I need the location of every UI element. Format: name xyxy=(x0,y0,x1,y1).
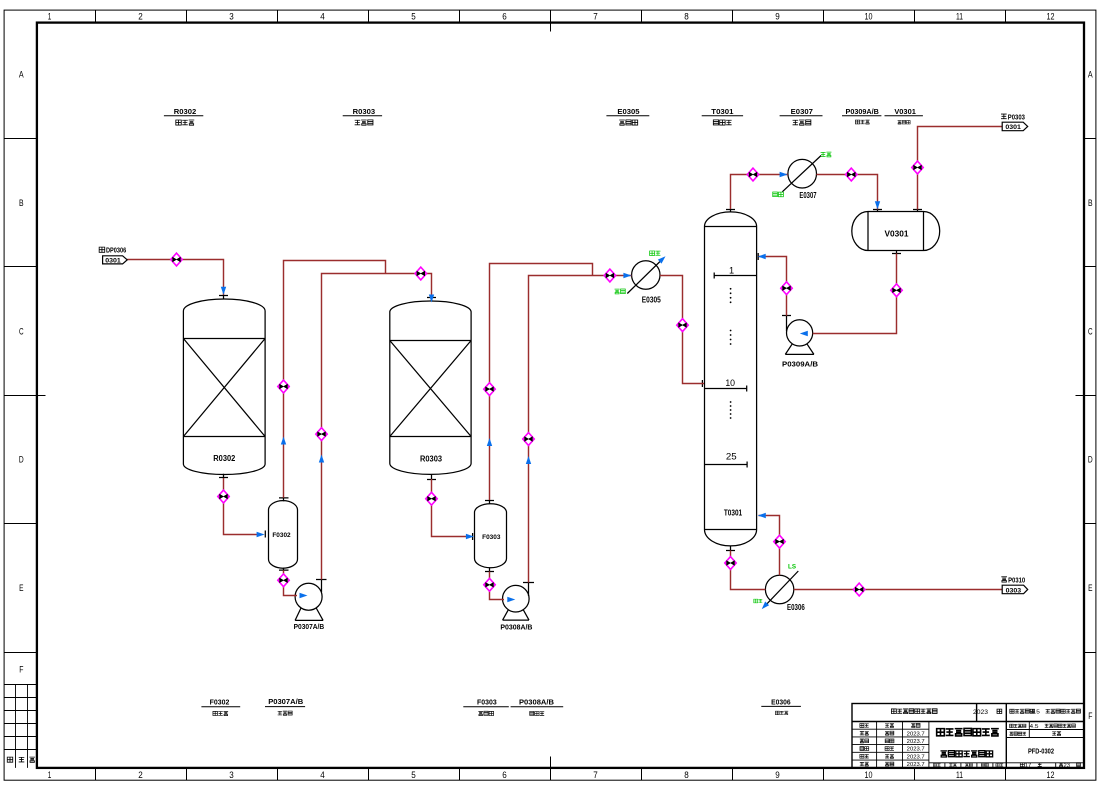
svg-text:6: 6 xyxy=(502,770,507,780)
svg-text:0301: 0301 xyxy=(1005,124,1021,131)
svg-text:E0306: E0306 xyxy=(771,697,791,706)
arrow before E0307 xyxy=(780,172,788,177)
arrow into P0307 xyxy=(300,593,308,598)
arrow vapor return into column xyxy=(758,513,766,518)
arrow up on F0303 overhead xyxy=(487,438,492,446)
svg-text:9: 9 xyxy=(775,12,780,22)
svg-text:2023.7: 2023.7 xyxy=(907,762,925,768)
label F0303 bottom xyxy=(463,698,509,716)
svg-text:4: 4 xyxy=(320,770,325,780)
label P0308A/B bottom xyxy=(511,698,564,716)
wire R0303 bottom to F0303 xyxy=(432,479,467,537)
svg-text:T0301: T0301 xyxy=(711,107,734,116)
svg-text:R0303: R0303 xyxy=(420,455,443,464)
svg-text:12: 12 xyxy=(1047,12,1055,22)
svg-text:E0307: E0307 xyxy=(799,191,816,200)
svg-text:A: A xyxy=(19,70,24,80)
svg-text:0301: 0301 xyxy=(105,258,121,265)
arrow up on P0308 discharge xyxy=(526,456,531,464)
svg-text:DP0306: DP0306 xyxy=(106,246,126,255)
pump P0308A/B xyxy=(503,583,535,621)
label P0307A/B bottom xyxy=(265,697,305,715)
svg-text:2: 2 xyxy=(138,770,143,780)
title block xyxy=(852,704,1084,769)
svg-text:PFD-0302: PFD-0302 xyxy=(1028,748,1054,755)
utility label E0307 out xyxy=(821,152,826,156)
svg-text:1: 1 xyxy=(729,265,734,275)
svg-text:17: 17 xyxy=(1025,763,1032,769)
svg-text:R0302: R0302 xyxy=(213,454,236,463)
svg-text:P0308A/B: P0308A/B xyxy=(500,622,532,631)
reactor R0303 xyxy=(390,298,471,480)
svg-text:3: 3 xyxy=(229,12,234,22)
wire F0302 top to R0303 feed junction xyxy=(284,261,386,498)
valve on V0301 outlet xyxy=(912,161,923,174)
valve below R0303 xyxy=(426,492,437,505)
wire E0306 vapor return to column xyxy=(759,516,780,576)
stream tag 0301 overhead outlet xyxy=(1001,112,1028,131)
arrow on E0306 outlet xyxy=(760,602,769,612)
svg-text:6: 6 xyxy=(502,12,507,22)
valve on reflux line xyxy=(781,282,792,295)
valve on reboiler return xyxy=(774,535,785,548)
svg-text:P0310: P0310 xyxy=(1008,575,1025,584)
svg-text:D: D xyxy=(1088,455,1093,465)
wire feed inlet to R0302 xyxy=(127,260,223,296)
utility label E0305 out xyxy=(650,251,655,256)
utility label E0305 in xyxy=(615,289,620,294)
wire E0305 to column feed xyxy=(660,276,704,384)
valve after E0307 xyxy=(846,168,857,181)
svg-text:E0307: E0307 xyxy=(791,107,813,116)
label F0302 bottom xyxy=(201,698,240,716)
svg-text:P0307A/B: P0307A/B xyxy=(294,622,325,631)
svg-text:E0305: E0305 xyxy=(642,295,662,304)
wire F0302 bottom to P0307 xyxy=(284,570,298,595)
heat exchanger E0307 xyxy=(782,156,821,192)
wire E0307 to V0301 xyxy=(816,175,877,210)
svg-text:4.5: 4.5 xyxy=(1031,710,1040,716)
svg-text:10: 10 xyxy=(865,12,873,22)
column tray dots xyxy=(730,288,732,419)
wire F0303 bottom to P0308 xyxy=(490,572,505,600)
svg-text:V0301: V0301 xyxy=(894,107,916,116)
svg-text:F0303: F0303 xyxy=(477,698,497,707)
svg-text:P0303: P0303 xyxy=(1008,112,1025,121)
svg-text:E0306: E0306 xyxy=(787,603,805,612)
svg-text:A: A xyxy=(1088,70,1093,80)
svg-text:LS: LS xyxy=(788,565,796,571)
wire column overhead to E0307 xyxy=(731,175,788,210)
arrow into R0302 top xyxy=(221,287,226,295)
valve on F0302 overhead xyxy=(278,380,289,393)
svg-text:2023.7: 2023.7 xyxy=(907,739,925,745)
arrow into P0308 xyxy=(507,597,515,602)
svg-text:7: 7 xyxy=(593,12,598,22)
svg-text:F: F xyxy=(19,665,24,675)
label R0303 xyxy=(343,107,382,125)
svg-text:2023.7: 2023.7 xyxy=(907,731,925,737)
valve below V0301 xyxy=(891,284,902,297)
svg-text:F0303: F0303 xyxy=(482,534,501,541)
separator F0302 xyxy=(265,498,297,571)
arrow into P0309 xyxy=(800,331,808,336)
label R0302 xyxy=(164,107,203,125)
pump P0307A/B xyxy=(295,580,326,621)
reboiler E0306 xyxy=(765,571,798,604)
valve on bottoms product xyxy=(854,583,865,596)
arrow before E0305 xyxy=(623,273,631,278)
label T0301 xyxy=(702,107,743,125)
svg-text:10: 10 xyxy=(725,378,735,388)
reactor R0302 xyxy=(183,296,265,479)
svg-text:P0308A/B: P0308A/B xyxy=(519,698,555,707)
utility label E0306 condensate xyxy=(754,599,758,603)
label E0307 xyxy=(780,107,823,125)
svg-text:P0309A/B: P0309A/B xyxy=(782,359,818,368)
arrow reflux into column xyxy=(758,254,766,259)
wire V0301 bottom to P0309 xyxy=(813,253,897,333)
svg-text:25: 25 xyxy=(726,452,737,462)
svg-text:12: 12 xyxy=(1047,770,1055,780)
svg-text:E0305: E0305 xyxy=(617,107,640,116)
arrow up on P0307 discharge xyxy=(319,455,324,463)
valve below F0303 xyxy=(484,578,495,591)
label E0305 xyxy=(606,107,649,125)
valve below R0302 xyxy=(218,490,229,503)
svg-text:B: B xyxy=(19,198,24,208)
svg-text:D: D xyxy=(19,455,24,465)
column T0301 xyxy=(702,209,758,551)
svg-text:R0303: R0303 xyxy=(353,107,376,116)
svg-text:2023: 2023 xyxy=(973,709,988,716)
pump P0309A/B xyxy=(782,316,814,355)
arrow into V0301 xyxy=(875,201,880,209)
svg-text:P0307A/B: P0307A/B xyxy=(268,697,304,706)
valve on column bottoms xyxy=(725,557,736,570)
svg-text:F0302: F0302 xyxy=(272,532,291,539)
heat exchanger E0305 xyxy=(627,261,660,294)
arrow into F0303 xyxy=(466,534,474,539)
valve on P0308 discharge xyxy=(523,433,534,446)
valve on F0303 overhead xyxy=(484,383,495,396)
svg-text:1: 1 xyxy=(48,12,52,22)
svg-text:2: 2 xyxy=(138,12,143,22)
wire V0301 to outlet 0301 xyxy=(918,127,1003,210)
svg-text:0303: 0303 xyxy=(1006,587,1022,594)
svg-text:5: 5 xyxy=(411,12,416,22)
svg-text:11: 11 xyxy=(956,12,963,22)
svg-text:F0302: F0302 xyxy=(210,698,230,707)
valve on feed line xyxy=(171,253,182,266)
svg-text:1: 1 xyxy=(48,770,52,780)
svg-text:8: 8 xyxy=(684,770,689,780)
svg-text:5: 5 xyxy=(411,770,416,780)
label P0309A/B xyxy=(842,107,881,124)
svg-text:23: 23 xyxy=(1064,763,1071,769)
svg-text:11: 11 xyxy=(956,770,963,780)
svg-text:2023.7: 2023.7 xyxy=(907,754,925,760)
valve before E0307 xyxy=(747,168,758,181)
stream tag 0303 bottoms outlet xyxy=(1001,575,1027,594)
stream tag 0301 inlet xyxy=(99,246,127,265)
arrow into F0302 xyxy=(257,532,265,537)
svg-text:7: 7 xyxy=(593,770,598,780)
svg-text:R0302: R0302 xyxy=(174,107,197,116)
svg-text:E: E xyxy=(1088,583,1092,593)
svg-text:9: 9 xyxy=(775,770,780,780)
bottom-left revision mini table xyxy=(4,685,37,768)
wire P0307 discharge to R0303 top xyxy=(322,274,432,580)
wire E0306 to outlet 0303 xyxy=(794,589,1002,591)
svg-text:E: E xyxy=(19,583,23,593)
wire R0302 bottom to F0302 xyxy=(224,478,259,535)
valve before E0305 xyxy=(604,269,615,282)
label V0301 xyxy=(885,107,923,124)
svg-text:V0301: V0301 xyxy=(885,229,910,238)
utility label E0307 in xyxy=(773,192,778,197)
svg-text:C: C xyxy=(19,326,24,336)
svg-text:C: C xyxy=(1088,326,1093,336)
svg-text:4: 4 xyxy=(320,12,325,22)
label E0306 bottom xyxy=(761,697,801,714)
svg-text:2023.7: 2023.7 xyxy=(907,747,925,753)
svg-text:B: B xyxy=(1088,198,1093,208)
wire P0308 discharge to E0305 xyxy=(529,276,632,583)
svg-text:10: 10 xyxy=(865,770,873,780)
valve below F0302 xyxy=(278,574,289,587)
separator F0303 xyxy=(473,500,507,571)
arrow into R0303 top xyxy=(429,295,434,303)
svg-text:4.5: 4.5 xyxy=(1030,724,1039,730)
svg-text:3: 3 xyxy=(229,770,234,780)
reflux drum V0301 xyxy=(852,209,940,254)
arrow on E0305 coolant xyxy=(658,254,668,263)
svg-text:T0301: T0301 xyxy=(724,509,743,518)
valve on P0307 discharge xyxy=(316,428,327,441)
svg-text:8: 8 xyxy=(684,12,689,22)
svg-text:F: F xyxy=(1088,711,1093,721)
wire F0303 top to E0305 feed junction xyxy=(490,264,593,501)
valve before R0303 xyxy=(415,267,426,280)
arrow up on F0302 overhead xyxy=(281,437,286,445)
valve on column feed xyxy=(677,319,688,332)
wire P0309 reflux to column xyxy=(759,257,787,316)
svg-text:P0309A/B: P0309A/B xyxy=(846,107,880,116)
wire column bottoms to E0306 xyxy=(731,551,766,590)
